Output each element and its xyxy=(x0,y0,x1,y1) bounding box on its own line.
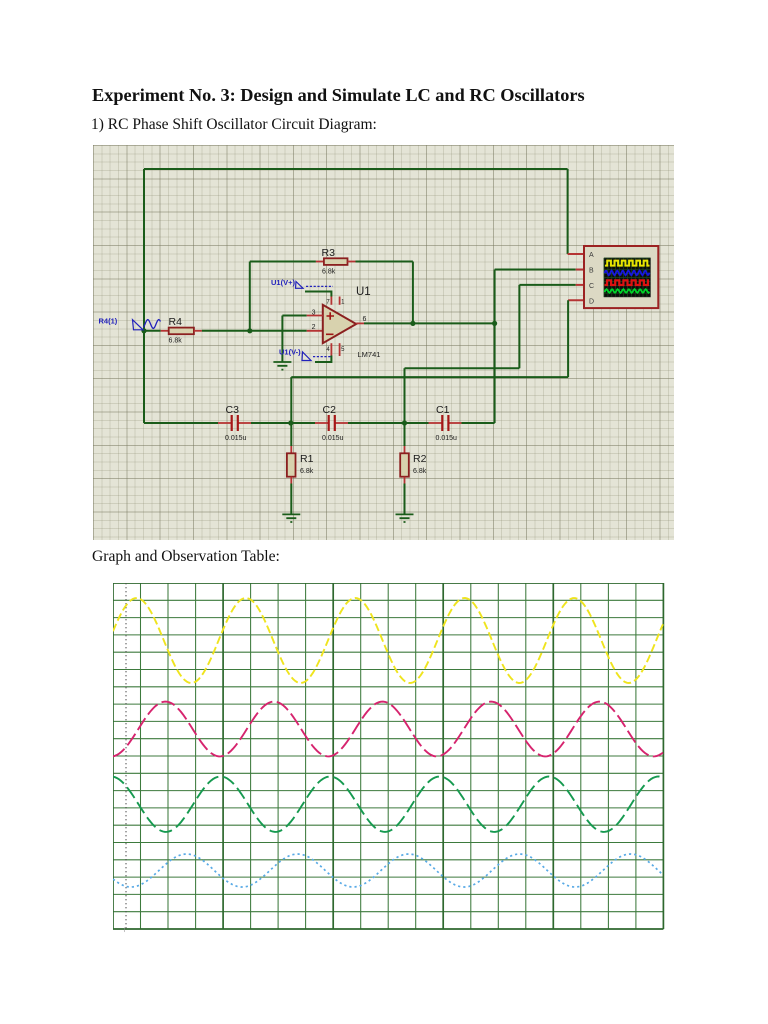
node: output/C1 junction xyxy=(492,321,497,326)
capacitor C3 leads xyxy=(218,422,231,424)
wire: R4 left lead xyxy=(144,330,161,332)
scope screen xyxy=(604,258,651,297)
svg-text:R3: R3 xyxy=(322,247,336,259)
wire: scope A pin stub xyxy=(568,253,585,255)
wire: row C3 to R1 node xyxy=(251,422,291,424)
scope trace C red square xyxy=(605,280,650,285)
svg-text:R2: R2 xyxy=(413,453,427,465)
wire: scope D drop to R1 node xyxy=(290,377,292,423)
probe U1(V-) dashed tape xyxy=(313,356,331,358)
svg-text:R4(1): R4(1) xyxy=(99,317,118,326)
wire: scope A vertical drop xyxy=(567,169,569,254)
resistor R3 xyxy=(324,258,348,265)
wire: scope D vertical xyxy=(567,300,569,377)
wire: R1 bottom lead xyxy=(290,477,292,484)
svg-text:U1(V+): U1(V+) xyxy=(271,278,295,287)
svg-text:A: A xyxy=(589,252,594,259)
wire: output horizontal xyxy=(364,322,495,324)
graph grid minor lines xyxy=(113,583,663,929)
scope trace B blue sine xyxy=(605,271,650,276)
wire: V- hook to pin4 xyxy=(315,356,331,363)
op-amp minus sign xyxy=(326,333,334,335)
node: C3/C2/R1 junction xyxy=(288,420,293,425)
probe R4(1) sine marker xyxy=(144,320,161,329)
node: R3/output junction xyxy=(410,321,415,326)
wire: scope B horizontal xyxy=(495,269,576,271)
svg-text:U1: U1 xyxy=(356,286,371,298)
wire: R3 right vertical to output xyxy=(412,262,414,324)
wire: R3 right horizontal xyxy=(348,261,356,263)
scope B pin stub xyxy=(576,269,585,271)
pin 6 stub xyxy=(356,322,364,324)
wire: row C1 to output riser xyxy=(462,422,495,424)
trace green sine (channel C) xyxy=(113,777,663,832)
svg-text:0.015u: 0.015u xyxy=(225,435,247,442)
svg-text:0.015u: 0.015u xyxy=(322,435,344,442)
scope trace A yellow square xyxy=(605,261,650,266)
capacitor C3 plates xyxy=(232,415,238,431)
svg-text:LM741: LM741 xyxy=(358,350,381,359)
ground (R2) xyxy=(396,514,414,522)
graph grid major lines xyxy=(113,583,663,929)
op-amp plus sign xyxy=(327,312,335,320)
wire: R1 top lead xyxy=(290,423,292,446)
wire: R4 right lead to pin2 node xyxy=(194,330,202,332)
wire: R2 bottom lead xyxy=(404,477,406,484)
svg-text:B: B xyxy=(589,268,594,275)
wire: output to scope B vertical xyxy=(494,270,496,424)
wire: row C2 to R2 node xyxy=(348,422,405,424)
wire: R3 left horizontal xyxy=(250,261,316,263)
svg-text:C1: C1 xyxy=(436,404,450,416)
svg-text:U1(V-): U1(V-) xyxy=(279,348,301,357)
wire: scope D lower horizontal xyxy=(291,376,568,378)
resistor R2 xyxy=(400,453,409,476)
trace yellow sine (channel A) xyxy=(113,598,663,683)
trace blue sine (channel D) xyxy=(113,854,663,887)
op-amp U1 triangle xyxy=(323,305,356,343)
scope trace D green sine xyxy=(605,289,650,293)
probe U1(V+) arrow xyxy=(296,282,304,289)
svg-text:5: 5 xyxy=(341,347,345,353)
pin 4 stub xyxy=(330,343,332,355)
svg-text:4: 4 xyxy=(326,347,330,353)
svg-text:2: 2 xyxy=(312,324,316,331)
wire: V+ hook to pin7 xyxy=(305,292,331,297)
svg-text:C: C xyxy=(589,283,594,290)
wire: scope C horizontal xyxy=(519,284,575,286)
svg-text:6.8k: 6.8k xyxy=(413,468,427,475)
wire: scope C lower horizontal xyxy=(405,367,520,369)
svg-text:R4: R4 xyxy=(169,316,183,328)
ground (non-inverting input) xyxy=(273,362,291,370)
svg-text:R1: R1 xyxy=(300,453,314,465)
node: R4 left junction xyxy=(141,328,146,333)
scope screen grid xyxy=(604,258,651,297)
wire: feedback net top horizontal xyxy=(144,168,568,170)
wire: R3 left vertical xyxy=(249,262,251,331)
wire: pin3 horizontal xyxy=(282,315,306,317)
ground (R1) xyxy=(282,514,300,522)
probe U1(V-) arrow xyxy=(302,352,311,361)
svg-text:1: 1 xyxy=(341,299,345,305)
svg-text:0.015u: 0.015u xyxy=(436,435,458,442)
svg-text:D: D xyxy=(589,298,594,305)
svg-text:C3: C3 xyxy=(226,404,240,416)
scope D pin stub xyxy=(568,299,585,301)
svg-text:7: 7 xyxy=(326,299,330,305)
node: inverting input junction xyxy=(247,328,252,333)
capacitor C1 leads xyxy=(429,422,442,424)
wire: row to C1 xyxy=(405,422,429,424)
wire: pin2 horizontal xyxy=(250,330,307,332)
pin 1 stub xyxy=(339,297,341,305)
graph cursor dotted line xyxy=(125,583,127,929)
trace pink sine (channel B) xyxy=(113,702,663,757)
wire: scope C vertical xyxy=(518,285,520,368)
pin 5 stub xyxy=(339,343,341,356)
svg-text:6.8k: 6.8k xyxy=(300,468,314,475)
pin 2 stub xyxy=(307,330,323,332)
pin 3 stub xyxy=(307,315,323,317)
capacitor C1 plates xyxy=(442,415,448,431)
svg-text:6: 6 xyxy=(363,316,367,323)
capacitor C2 leads xyxy=(315,422,328,424)
wire: scope C drop to R2 node xyxy=(404,368,406,423)
resistor R1 xyxy=(287,453,296,476)
wire: row to C2 xyxy=(291,422,315,424)
probe R4(1) arrow xyxy=(133,320,144,330)
wire: R2 top lead xyxy=(404,423,406,446)
resistor R4 xyxy=(169,328,194,335)
wire: RC ladder row left segment xyxy=(144,422,218,424)
oscilloscope body xyxy=(584,246,658,308)
wire: feedback net left vertical xyxy=(143,169,145,423)
svg-text:6.8k: 6.8k xyxy=(169,338,183,345)
svg-text:C2: C2 xyxy=(323,404,337,416)
probe U1(V+) dashed tape xyxy=(306,285,333,287)
capacitor C2 plates xyxy=(329,415,335,431)
scope C pin stub xyxy=(576,284,585,286)
svg-text:6.8k: 6.8k xyxy=(322,269,336,276)
node: C2/C1/R2 junction xyxy=(402,420,407,425)
pin 7 stub xyxy=(330,297,332,305)
wire: pin3 ground vertical xyxy=(281,316,283,363)
